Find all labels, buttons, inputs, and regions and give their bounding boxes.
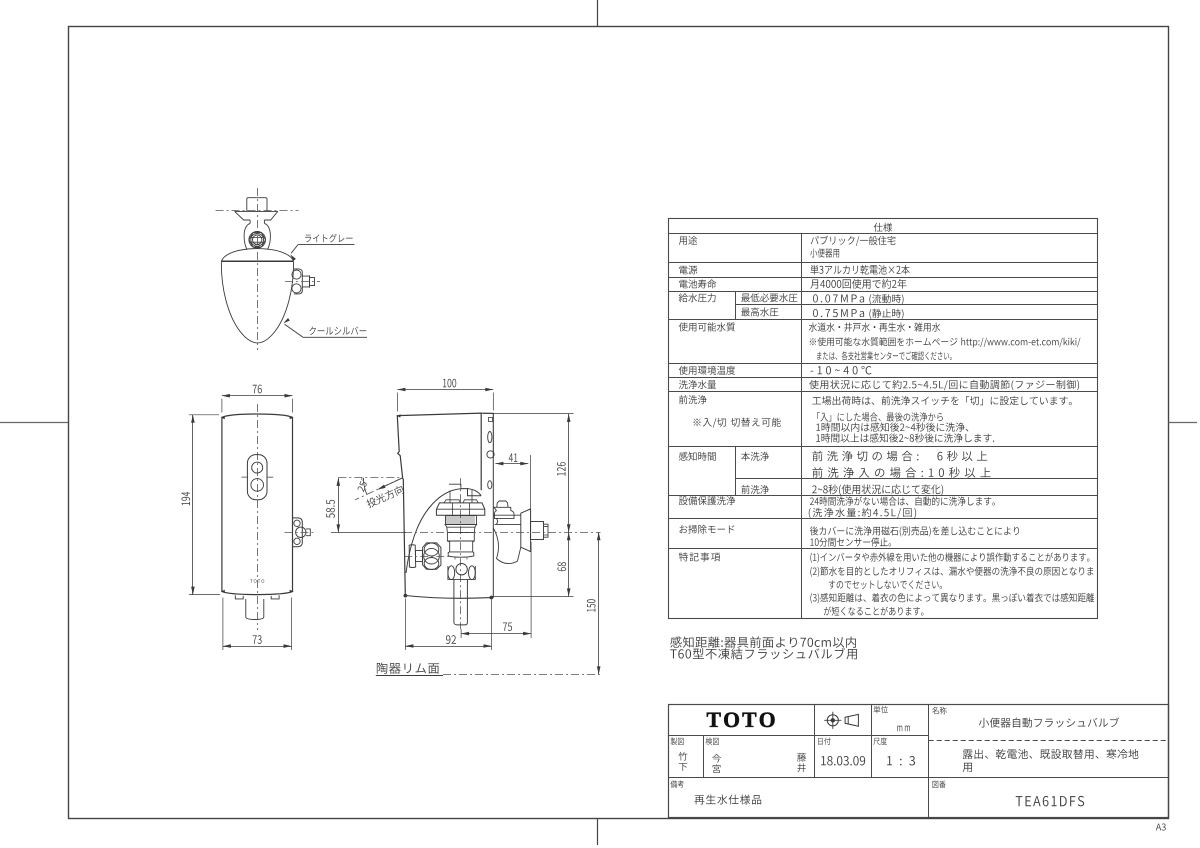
label senjou suiryou xyxy=(679,380,716,389)
sensor lower circle xyxy=(251,479,264,492)
value 10funkan sensor teishi xyxy=(810,537,891,546)
dimension 75 arrows xyxy=(461,632,469,636)
dimension 92 arrows xyxy=(405,644,413,648)
label dengen xyxy=(679,265,697,274)
name shoubenki jidou flush valve xyxy=(979,717,1119,727)
label mae senjou sub xyxy=(741,485,769,494)
label setsubi hogo senjou xyxy=(679,496,735,505)
dimension 58.5 ext bottom xyxy=(331,532,406,534)
value suidousui idosui xyxy=(809,322,940,331)
dimension 92 ext lines xyxy=(405,599,491,651)
inlet valve body xyxy=(423,543,441,569)
label line light gray xyxy=(291,244,354,253)
dimension 68 arrows xyxy=(567,532,571,540)
title block col name xyxy=(928,705,930,818)
knurled ring xyxy=(446,516,477,525)
egg shaped lower cover xyxy=(221,261,293,343)
dimension 76 ext lines xyxy=(222,399,293,413)
spreader left ellipse xyxy=(448,566,455,580)
dimension 76 arrows xyxy=(222,394,230,398)
value tan3 alkali denchi xyxy=(810,265,909,275)
valve centerline vertical xyxy=(460,478,462,629)
inlet valve mid circle xyxy=(424,548,440,564)
value tokki 2 sessui orifice xyxy=(810,566,1093,576)
cowl step curve xyxy=(468,489,482,496)
side outlet end plug xyxy=(310,278,315,286)
label arrow cool silver xyxy=(283,318,290,323)
plate hole middle xyxy=(487,451,494,458)
swivel hex nut xyxy=(249,233,266,247)
dimension 73 arrows xyxy=(223,644,231,648)
dimension 75 ext line xyxy=(461,542,531,638)
side outlet centerline xyxy=(285,281,320,283)
vacuum breaker top nut xyxy=(497,501,508,507)
left center registration mark xyxy=(0,422,68,424)
label bikou xyxy=(670,780,683,788)
title block col stamp-date xyxy=(814,705,816,777)
dimension 92 line xyxy=(405,646,491,648)
cover seam line xyxy=(221,260,293,262)
outlet end threads xyxy=(544,524,549,537)
label youto xyxy=(679,236,697,245)
ceramic rim centerline xyxy=(443,674,602,676)
dim text 58.5 xyxy=(326,500,335,518)
swivel nut slot lines xyxy=(252,235,264,245)
bell cylinder xyxy=(447,533,474,552)
side outlet lower lobe xyxy=(292,284,301,293)
dimension 41 line xyxy=(495,463,528,465)
label kenzu xyxy=(706,737,719,745)
label saikou suiatsu xyxy=(741,307,778,316)
label toukou houkou beam direction xyxy=(365,484,404,508)
knurl hatching xyxy=(446,516,474,524)
value maesenjou kiri 6byou xyxy=(812,451,987,462)
title block col sakuzu-kenzu xyxy=(703,736,705,777)
toto marking text xyxy=(250,579,264,582)
vacuum breaker body xyxy=(494,507,514,518)
value 1jikan inai xyxy=(816,422,968,431)
value ato cover jishaku xyxy=(810,526,1019,536)
dim text 92 xyxy=(446,635,456,644)
value maesenjou iri 10byou xyxy=(812,467,990,478)
outlet spud xyxy=(531,522,544,540)
value koujou shukka xyxy=(812,396,1072,405)
dim text 126 xyxy=(557,462,566,476)
inlet valve bottom circle xyxy=(424,558,439,570)
plate hole upper xyxy=(488,432,492,443)
dimension 126 arrows xyxy=(567,414,571,422)
label hizuke xyxy=(818,737,830,744)
swivel joint body xyxy=(244,223,270,249)
label tan-i unit xyxy=(874,706,888,714)
front side fitting outline xyxy=(292,518,302,547)
label shakudo xyxy=(873,737,886,745)
spreader body xyxy=(448,566,475,579)
wall mounting plate xyxy=(481,413,493,597)
down pipe xyxy=(454,580,468,625)
front side fitting center boss xyxy=(296,527,306,537)
value -10 40 degC xyxy=(811,366,872,375)
swivel nut outer circle xyxy=(249,232,266,249)
spec table sub column divider kanchi xyxy=(735,446,737,496)
value tokki 2b set shinai xyxy=(829,580,942,589)
sheet size A3 xyxy=(1156,824,1166,831)
table header shiyou xyxy=(874,223,893,232)
label kyuusui atsuryoku xyxy=(679,293,716,302)
dimension 194 line xyxy=(192,415,194,595)
note T60 gata futouketsu xyxy=(670,648,857,660)
value seishi ji xyxy=(869,309,903,319)
dimension 126-68 line xyxy=(568,414,570,597)
label kanchi jikan xyxy=(679,452,716,461)
value tsuki 4000 kai xyxy=(810,279,906,289)
lower cowl seam curve xyxy=(406,489,481,573)
scale 1:3 xyxy=(887,756,915,765)
dimension 73 ext lines xyxy=(223,598,292,651)
beam direction line 25deg xyxy=(355,478,403,500)
plate top mark xyxy=(489,418,493,422)
label iri kiri kirikae kanou xyxy=(694,418,781,428)
projection target symbol xyxy=(827,715,838,726)
outlet pipe lines xyxy=(493,515,521,563)
dim text 68 xyxy=(557,562,566,571)
dim text 41 xyxy=(509,453,518,461)
sensor upper circle xyxy=(252,462,263,473)
sensor side ticks xyxy=(242,476,274,478)
wall plate bottom edge xyxy=(405,596,493,599)
label tokki jikou xyxy=(679,552,720,561)
stamp fujii xyxy=(797,753,806,762)
front side fitting lower hole xyxy=(294,538,300,544)
dimension 126 ext top xyxy=(483,413,574,415)
title block dashed divider xyxy=(929,740,1169,742)
dimension 58.5 line xyxy=(338,478,340,533)
label seizu xyxy=(671,737,684,745)
dimension 75 line xyxy=(461,633,531,635)
side outlet bracket xyxy=(293,269,302,294)
valve bonnet facet lines xyxy=(436,500,484,516)
spec table subrow line kanchi xyxy=(736,478,1097,480)
dim text 100 xyxy=(443,379,456,388)
front side fitting upper hole xyxy=(294,520,300,526)
flange stem xyxy=(250,220,264,223)
value 0.75MPa xyxy=(813,309,864,317)
outlet centerline xyxy=(404,532,601,534)
value iri ni shita baai xyxy=(817,412,943,421)
bell bottom marks xyxy=(455,558,467,560)
front side fitting centerline xyxy=(285,532,317,534)
value 24jikan senjou xyxy=(810,496,995,505)
dimension 58.5 arrows xyxy=(337,478,341,486)
dim text 73 xyxy=(253,635,262,644)
dimension 76 line xyxy=(222,395,293,397)
spreader right ellipse xyxy=(469,566,476,580)
name you (2nd line) xyxy=(963,763,972,772)
front view bottom corner dots xyxy=(222,590,293,592)
valve body side lines xyxy=(449,484,472,503)
bottom center registration mark xyxy=(597,818,599,845)
title block outer border xyxy=(669,705,1169,818)
inlet bolt cap xyxy=(247,198,267,211)
value shoubenki you xyxy=(810,248,839,257)
dimension 100 ext lines xyxy=(397,393,493,412)
value public ippan juutaku xyxy=(811,236,896,246)
front bottom right clip xyxy=(271,595,279,599)
title block row line 2 xyxy=(668,777,1168,779)
side outlet cylinder xyxy=(302,275,309,288)
bell step 1 xyxy=(445,525,477,528)
dimension 194 arrows xyxy=(191,415,195,423)
plate hole lower xyxy=(488,481,492,489)
spec table sub column divider kyusui xyxy=(735,291,737,319)
name roshutsu kandenchi xyxy=(963,749,1139,759)
side body top corner dot xyxy=(397,415,400,417)
ceramic rim line solid xyxy=(376,675,443,677)
dim text 194 xyxy=(181,492,190,505)
label 25 degrees xyxy=(357,477,369,492)
top center registration mark xyxy=(597,0,599,27)
title block row line 1 xyxy=(668,735,929,737)
cover dome top arc xyxy=(221,249,293,262)
label touki rim men xyxy=(377,663,439,674)
note kanchi kyori 70cm xyxy=(670,636,856,647)
dimension 73 line xyxy=(223,646,292,648)
value tokki 1 inverter xyxy=(810,552,1089,562)
spreader center circle xyxy=(456,564,467,575)
value tokki 3 kanchi kyori xyxy=(810,593,1094,604)
bell flare xyxy=(448,552,474,557)
part number TEA61DFS xyxy=(1016,796,1084,806)
dimension 100 line xyxy=(397,389,493,391)
spec table subrow line kyusui xyxy=(736,304,1097,306)
projection cone symbol xyxy=(845,714,858,726)
value kakushisha eigyo center xyxy=(817,351,952,360)
dimension 100 arrows xyxy=(397,388,405,392)
outlet flange trapezoid xyxy=(521,509,531,552)
label zuban xyxy=(933,781,946,788)
top view horizontal centerline xyxy=(216,210,299,212)
title block col unit-scale xyxy=(871,705,873,777)
label osouji mode xyxy=(680,525,735,534)
right center registration mark xyxy=(1169,422,1198,424)
date 18.03.09 xyxy=(821,756,865,765)
spec table value column divider xyxy=(801,233,803,619)
label hon senjou xyxy=(741,452,769,461)
dimension 41 arrows xyxy=(495,462,503,466)
angle arc 25deg xyxy=(363,478,366,495)
top view vertical centerline xyxy=(257,188,259,350)
beam direction arrow line xyxy=(379,478,403,489)
side view body outline xyxy=(397,413,481,595)
front view top corner dots xyxy=(222,417,293,419)
value 1jikan ijou xyxy=(816,433,994,442)
swivel nut inner circle xyxy=(253,235,262,244)
TOTO logo xyxy=(707,712,775,727)
inlet valve flange disc xyxy=(409,545,416,568)
dim text 150 xyxy=(587,599,596,611)
front view body outline xyxy=(222,414,293,595)
mounting flange trapezoid xyxy=(235,211,278,220)
label meishou xyxy=(932,707,946,715)
unit mm xyxy=(897,725,910,731)
dimension 150 line xyxy=(598,532,600,674)
label saitei hitsuyou suiatsu xyxy=(741,293,797,302)
inlet valve stem xyxy=(416,551,423,562)
spec table row lines xyxy=(669,234,1097,549)
bell step 2 xyxy=(447,527,475,532)
dimension 41 ext line xyxy=(493,413,530,520)
beam direction arrowhead xyxy=(378,485,386,490)
front view centerline xyxy=(257,404,259,630)
value 0.07MPa xyxy=(813,294,864,302)
front outlet pipe xyxy=(246,599,264,620)
sensor window xyxy=(247,455,267,500)
label shiyou kankyou ondo xyxy=(679,366,735,375)
front bottom left clip xyxy=(235,595,243,599)
side outlet upper lobe xyxy=(292,270,301,279)
side body bottom corner dot xyxy=(404,594,407,597)
value 2-8byou henka xyxy=(812,484,943,495)
dimension 150 arrows xyxy=(597,532,601,540)
dimension 68 ext bottom xyxy=(494,596,574,598)
label denchi jumyou xyxy=(679,279,716,288)
value tokki 3b mijikaku xyxy=(824,606,924,615)
dim text 76 xyxy=(253,385,262,394)
value senjou suiryou 4.5L xyxy=(809,508,916,518)
swivel nut middle circle xyxy=(251,233,264,246)
bikou saiseisui shiyouhin xyxy=(694,795,761,805)
spec table outer border xyxy=(669,219,1098,619)
value ryuudou ji xyxy=(869,294,903,304)
valve bonnet hex nut xyxy=(436,503,484,515)
stamp imamiya xyxy=(712,754,721,763)
front side fitting spud xyxy=(306,529,310,536)
dimension 194 ext lines xyxy=(189,415,220,595)
side body bottom corner dot2 xyxy=(490,596,493,599)
label cool silver xyxy=(309,327,366,335)
label line cool silver xyxy=(285,324,367,337)
dimension 58.5 ext top xyxy=(338,477,402,479)
label arrow light gray xyxy=(290,254,296,261)
label shiyou kanou suishitsu xyxy=(679,322,735,331)
dim text 75 xyxy=(503,622,512,631)
value jidou chousetsu fuzzy xyxy=(809,380,1079,390)
stamp takeshita xyxy=(678,752,687,761)
value suishitsu hanni homepage xyxy=(810,337,1081,347)
inlet valve top circle xyxy=(424,543,439,556)
label mae senjou xyxy=(679,395,707,404)
label light gray xyxy=(305,234,352,243)
inlet centerline xyxy=(404,556,451,558)
